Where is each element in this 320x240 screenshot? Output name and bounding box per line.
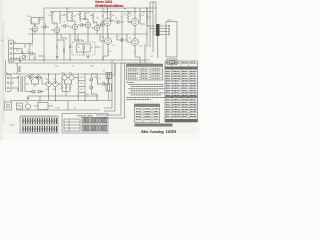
wire V5 leads [91,22,97,34]
wire V7 collector net [128,8,145,24]
notes line 1 [129,84,164,86]
transistor V6 [104,18,111,25]
svg-text:V2: V2 [53,24,55,26]
svg-text:C21: C21 [53,79,56,81]
svg-text:390: 390 [80,83,83,85]
resistor R33 [134,49,140,57]
parts list cell text [166,63,197,117]
pin J2-4 [168,34,170,36]
parts list bottom band [165,119,198,122]
svg-text:.1: .1 [99,21,100,23]
svg-text:CR4: CR4 [94,77,97,79]
wire drop b [149,2,151,47]
wire V4 collector net [80,12,88,20]
transformer T1 core [21,76,22,92]
pin J2-3 [168,31,170,33]
resistor R5 [51,14,53,23]
wire second bus [50,11,153,13]
svg-text:TERMINAL PANEL: TERMINAL PANEL [76,115,94,118]
TB2 mid text row [22,124,56,126]
svg-text:B+: B+ [143,12,145,14]
extra value labels along bus [16,12,155,96]
resistor R30 [103,48,109,60]
svg-text:SEL: SEL [86,94,89,96]
pin J3-3 [7,87,9,89]
resistor R27 [146,13,148,24]
wire emitter rail [28,33,148,35]
terminal strip TB1 [156,24,160,36]
wire to lower section [6,60,18,74]
parts list frame [165,61,198,122]
notes line 8 [127,98,151,100]
transistor V10 regulator [62,75,67,80]
svg-text:.05: .05 [63,22,65,24]
junction emitter 1 [56,33,57,34]
transistor V5 [94,25,99,30]
fuse F2 box [17,103,23,109]
jack J4 [5,102,12,110]
svg-text:2: 2 [16,58,17,60]
wire interstage [100,34,140,63]
fuse label box [170,60,176,63]
resistor R48 [65,85,67,92]
svg-text:.01: .01 [79,21,81,23]
ground G1 [19,59,22,63]
connector J1 input jack [9,40,14,62]
resistor R2 [38,18,40,25]
capacitor C20 electrolytic [46,81,51,86]
resistor R44 [56,40,58,60]
switch S1 box [38,103,48,110]
resistor R53 bias chain [78,93,79,101]
svg-text:V1: V1 [31,23,33,25]
wire input leads [14,44,30,59]
resistor R37 [90,44,91,52]
wire bus drop right C [96,63,121,115]
potentiometer R40 gain [20,49,24,59]
svg-text:P: P [24,78,25,80]
wire long rail B [8,62,153,64]
wire ground rail [10,100,112,102]
wire left rail drop [43,8,45,62]
resistor R50 bias chain [78,74,79,80]
characteristics table text [128,68,161,79]
svg-text:6: 6 [154,22,155,24]
capacitor C6 [78,23,86,27]
relay K2 [106,84,112,91]
notes line 7 [127,96,165,98]
wire bus drop right B [104,63,115,111]
relay K1 [106,73,112,79]
accessory mini table [64,119,80,131]
svg-text:M1: M1 [26,102,28,104]
capacitor C22 [103,74,108,86]
pin J2-2 [168,28,170,30]
svg-text:CR2: CR2 [31,74,34,76]
transistor V1 [32,26,37,31]
svg-text:K1: K1 [103,71,105,73]
resistor R47 [61,85,63,92]
switch bank hatch row 1 [83,118,103,122]
wire supply rail [5,73,112,75]
TB2 row 2 bar [22,128,58,130]
svg-text:OUT: OUT [150,56,154,58]
wire V3 leads [69,21,75,34]
parts list header band [165,67,198,70]
svg-text:V9: V9 [129,38,131,40]
polarity C20 [48,82,50,84]
rectifier CR6 [32,90,35,93]
relay K2 coil ticks [108,84,110,91]
junction supply 1 [48,73,49,74]
switch S2 wiper [24,56,26,60]
characteristics table frame [127,64,163,80]
rectifier CR7 [38,90,41,93]
svg-text:V10: V10 [62,73,65,75]
svg-text:82: 82 [92,47,94,49]
wire V3 collector net [67,8,75,21]
fuse F2 element [18,105,22,107]
TB2 legend text row [22,116,56,118]
accessory mini table rows [64,119,80,131]
junction rail B 2 [121,62,122,63]
transistor V3 [72,24,77,29]
wire drop a [146,8,148,47]
switch bank label row [82,124,107,126]
transformer T1 secondary [25,76,26,92]
svg-text:40: 40 [33,58,35,60]
transistor V2 [54,27,59,32]
ground G3 [56,57,59,59]
wire V8 leads [100,34,108,48]
resistor R49 [69,85,71,92]
resistor R52 bias chain [78,87,79,91]
wire panel riser a [39,96,41,101]
feedback network box (dashed) [72,42,95,55]
svg-text:C20: C20 [45,79,48,81]
wire input net [25,29,44,56]
capacitor C14 [117,34,127,42]
wire AC leads [11,78,16,88]
resistor R41 [29,44,30,51]
pin J1-2 [10,48,12,50]
impedance table frame [135,104,160,123]
capacitor C2 [41,25,49,29]
rectifier CR2 bridge [29,75,35,81]
junction rail B 1 [63,62,64,63]
svg-text:.02: .02 [44,24,46,26]
wire V6 leads [101,13,108,34]
pin J4 tip [6,104,9,107]
polarity C21 [55,82,57,84]
TB2 row 1 terminals [23,118,57,124]
wire V6 bias net [108,8,115,21]
svg-text:+: + [122,47,123,49]
transistor V8 [105,38,112,45]
junction bus 3 [134,7,135,8]
svg-text:V8: V8 [102,37,104,39]
parts list column rules [172,61,190,122]
wire TB1 feeds [147,26,156,34]
resistor R13 [79,13,81,20]
junction bus2 1 [79,11,80,12]
svg-text:V11: V11 [69,73,72,75]
capacitor C16 [63,49,65,54]
svg-text:560: 560 [112,15,115,17]
wire V1 collector net [31,18,44,27]
junction gnd 2 [84,100,85,101]
switch bank hatch row 2 [83,126,103,130]
impedance table header [135,104,160,107]
impedance table grid [135,107,160,123]
pin J1-1 [10,43,12,45]
resistor R1 [30,18,32,25]
wire R47-49 ties [62,84,70,96]
wire relay feeds [109,63,115,101]
wire panel riser b [67,101,69,111]
wire lower rail [16,109,100,111]
svg-text:S1: S1 [39,101,41,103]
page background [0,0,200,140]
wire rectifier net [29,76,47,92]
junction bus2 2 [110,11,111,12]
resistor R24 [127,13,132,22]
wire V9 leads [127,34,135,49]
notes line 4 [131,90,159,92]
svg-text:V4: V4 [84,19,86,21]
wire TB1 to block [160,26,168,34]
transistor V4 [85,22,90,27]
resistor R25 [139,13,141,24]
resistor R36 [76,44,77,52]
impedance table text [136,109,159,119]
wire filter net [49,74,63,101]
wire center rail drop [102,8,104,60]
resistor R51 bias chain [78,81,79,85]
pin J3-1 [7,77,9,79]
resistor R17 [92,13,97,22]
notes line 6 [131,94,162,96]
TB2 row 2 terminals [23,126,57,132]
rectifier CR3 bridge [36,75,42,81]
svg-text:J4: J4 [4,100,6,102]
wire V1 leads [29,23,35,34]
capacitor C15 [83,44,85,52]
svg-text:Altec Lansing 1420A: Altec Lansing 1420A [140,129,177,134]
wire drop c [150,2,156,52]
svg-text:.5: .5 [118,36,119,38]
svg-text:R40: R40 [16,50,19,52]
notes line 0 [127,82,135,84]
svg-text:wiring: wiring [9,125,14,127]
diode CR5 [90,84,93,94]
impedance table footer band [135,124,173,127]
junction rail A 2 [69,59,70,60]
svg-text:470: 470 [64,14,67,16]
wire mid rail drop [121,12,123,61]
svg-text:V6: V6 [102,16,104,18]
svg-text:TO TB2: TO TB2 [54,108,60,110]
wire V4 leads [82,19,88,34]
transistor V9 [132,39,139,46]
transformer T1 primary [18,76,19,92]
switch bank row 1 [82,118,107,124]
notes line 2 [131,86,164,88]
resistor R9 [66,13,68,21]
wire regulator net [62,74,78,84]
wire bridge mid [28,81,98,97]
capacitor C1 [25,52,35,61]
svg-text:2000: 2000 [53,89,57,91]
svg-text:V3: V3 [71,20,73,22]
ground G2 [27,96,30,100]
red strike mark [95,5,122,7]
transistor V11 regulator [69,75,74,80]
wire stage drops [57,34,100,60]
wire drop d [145,2,158,63]
svg-text:47: 47 [110,51,112,53]
svg-text:25: 25 [115,18,117,20]
junction dots [43,7,147,101]
wire T1 hookup [16,76,30,92]
svg-text:1: 1 [161,24,162,26]
parts list row rules [165,64,198,118]
junction bus 1 [66,7,67,8]
junction bus2 3 [127,11,128,12]
pin J1-3 [10,53,12,55]
svg-text:.25: .25 [120,17,122,19]
diode CR4 [90,74,93,84]
svg-text:V7: V7 [130,16,132,18]
wire bus drop right A [104,60,112,108]
relay K1 coil ticks [108,73,110,79]
capacitor C4 [61,24,69,28]
connector block J2 [166,22,177,58]
resistor R42 [29,50,30,60]
svg-text:220: 220 [141,15,144,17]
junction bus 2 [107,7,108,8]
meter M1 [25,104,30,109]
svg-text:CT: CT [72,66,74,68]
wire aux net [91,74,103,101]
svg-text:J1: J1 [7,38,9,40]
wire S1 leads [34,105,53,107]
pin J2-1 [168,25,170,27]
svg-text:T1: T1 [19,74,21,76]
terminal board TB2 outline [20,116,58,133]
rotary switch S2 [22,55,26,59]
transistor V7 [131,18,138,25]
svg-text:10: 10 [27,51,29,53]
resistor R6 [59,14,61,24]
switch bank row 2 [82,126,107,132]
notes line 3 [129,88,165,90]
wire bus drop right D [96,63,125,118]
fuse block F1 [167,59,177,65]
resistor R14 [84,13,86,20]
pin J1-4 [10,58,12,60]
TB2 row 1 bar [22,120,58,122]
junction bus 4 [146,7,147,8]
wire feedback tie [75,34,90,55]
capacitor C8 [97,23,105,27]
wire coupling node [146,8,148,26]
junction supply 2 [84,73,85,74]
svg-text:150: 150 [104,12,107,14]
svg-text:56: 56 [99,78,101,80]
resistor R20 [110,13,112,22]
capacitor C10 [114,20,124,24]
svg-text:2000: 2000 [45,89,49,91]
resistor R10 [71,13,73,21]
wire long rail A [8,59,150,61]
sheet edge line [2,22,4,122]
svg-text:V5: V5 [93,23,95,25]
svg-text:K2: K2 [103,82,105,84]
junction emitter 2 [107,33,108,34]
pin J3-2 [7,82,9,84]
capacitor C21 electrolytic [53,81,58,86]
svg-text:120: 120 [80,89,83,91]
junction rail A 1 [43,59,44,60]
wire top bus V+ [44,7,156,9]
characteristics table grid [127,67,163,80]
characteristics table header [127,64,163,67]
wire bias taps [78,74,85,101]
resistor R55 [97,76,98,84]
ground G4 [87,55,90,58]
junction rail A 3 [102,59,103,60]
transformer T2 input [17,66,20,72]
accessory panel outline [62,114,108,134]
wire V2 collector net [52,12,60,25]
wire V7 leads [128,13,135,34]
wire V2 leads [51,24,57,34]
capacitor C17 [69,46,71,47]
connector J3 AC inlet [6,75,12,92]
junction gnd 1 [55,100,56,101]
parts list subheader band [165,96,198,99]
notes line 5 [129,92,165,94]
svg-text:10: 10 [148,17,150,19]
wire aux drop [61,34,66,40]
